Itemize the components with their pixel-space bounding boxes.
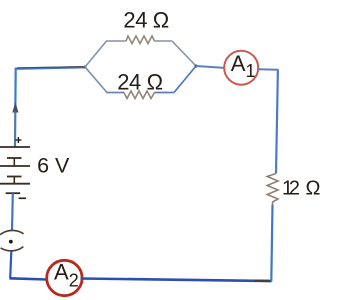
node: hexagon left vertex: [83, 65, 86, 68]
wire: bottom branch left diagonal: [85, 67, 107, 93]
wire: bottom horizontal (A2 to bottom-right corner): [81, 279, 272, 282]
wire: top branch left horizontal: [106, 40, 126, 42]
wire: bottom-right corner dark segment: [254, 280, 272, 283]
key contact dot: [9, 240, 13, 244]
battery plus terminal label: [15, 137, 21, 143]
wire: left vertical segment (battery to top corner): [14, 68, 17, 148]
wire: right vertical lower segment: [271, 205, 272, 282]
wire: bottom branch right horizontal: [155, 92, 175, 94]
wire: right vertex to ammeter A1: [196, 66, 225, 68]
wire: top-left horizontal segment: [15, 67, 85, 69]
svg-text:12 Ω: 12 Ω: [282, 178, 321, 200]
svg-text:24 Ω: 24 Ω: [117, 70, 162, 95]
wire: bottom branch left horizontal: [107, 92, 125, 94]
wire: bottom branch right diagonal: [174, 66, 196, 93]
battery minus terminal label: [19, 197, 26, 199]
wire: right vertical upper segment: [276, 70, 278, 174]
wire: top branch right diagonal: [172, 41, 196, 66]
resistor R2 24 ohm (bottom zigzag): [124, 91, 155, 99]
wire: key to bottom-left corner: [10, 252, 11, 279]
svg-text:24 Ω: 24 Ω: [123, 8, 168, 33]
wire: bottom-left horizontal to ammeter A2: [10, 278, 48, 279]
wire: top branch right horizontal: [155, 40, 173, 42]
wire: ammeter A1 to top-right corner: [258, 68, 279, 71]
key / tap switch K (open circle with dot): [0, 230, 24, 250]
resistor R1 24 ohm (top zigzag): [126, 36, 155, 44]
wire: top branch left diagonal: [85, 41, 107, 67]
ammeter A2: [47, 260, 82, 295]
node: hexagon right vertex: [194, 64, 197, 67]
ammeter A1: [224, 51, 258, 85]
wire: battery bottom to key: [11, 194, 14, 232]
battery B (6 V cell stack): [0, 147, 30, 193]
resistor R3 12 ohm (vertical zigzag): [267, 174, 278, 206]
svg-text:6 V: 6 V: [37, 153, 70, 177]
current direction arrow: [12, 102, 18, 146]
